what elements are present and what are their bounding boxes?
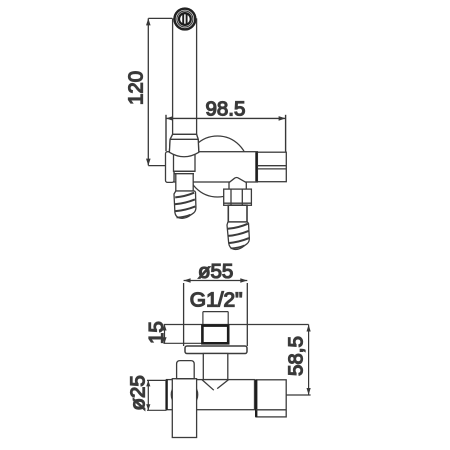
handle lower column wide part bbox=[174, 153, 196, 172]
hex facet line right bbox=[241, 189, 243, 205]
wall line bbox=[164, 324, 309, 326]
svg-text:G1/2": G1/2" bbox=[190, 289, 243, 312]
valve seat circle bbox=[171, 381, 197, 407]
handle grip transition bbox=[169, 134, 198, 156]
svg-text:15: 15 bbox=[145, 321, 168, 344]
dimension 58,5 bbox=[287, 325, 311, 396]
hex facet line left bbox=[230, 189, 232, 205]
V chamfer right bbox=[217, 380, 228, 389]
grip flare line overdraw bbox=[170, 138, 198, 140]
wall bracket bbox=[166, 152, 175, 183]
left hose spiral connector bbox=[174, 191, 196, 218]
dimension dia55 line bbox=[184, 281, 248, 347]
right outlet cap bbox=[256, 380, 286, 417]
dimension dia55 arrows bbox=[184, 278, 248, 283]
thick thread square bbox=[202, 326, 228, 344]
hex nut bbox=[224, 189, 252, 205]
hand shower handle column bbox=[173, 19, 197, 134]
grip overdraw bbox=[169, 134, 198, 156]
cap crossing line bbox=[256, 409, 286, 411]
ring line 2 bbox=[175, 173, 195, 175]
body left end thick bbox=[165, 380, 167, 410]
dimension 98.5 line bbox=[166, 115, 286, 152]
bottom dome over nut bbox=[229, 178, 246, 190]
shower head top circle assembly bbox=[175, 9, 196, 30]
horizontal body bbox=[167, 380, 255, 410]
outlet block right bbox=[257, 152, 286, 182]
svg-text:98.5: 98.5 bbox=[206, 98, 246, 121]
outlet inner line 2 bbox=[257, 168, 286, 170]
svg-text:120: 120 bbox=[125, 71, 148, 105]
G1/2 thread stub above wall bbox=[203, 312, 228, 326]
dimension 15 line bbox=[164, 325, 203, 344]
flange rosette bbox=[185, 346, 247, 354]
handle narrow column bbox=[176, 174, 193, 191]
cap left thick edge bbox=[255, 380, 257, 417]
dimension 15 arrows bbox=[162, 325, 166, 344]
V chamfer left bbox=[202, 380, 214, 391]
dimension dia25 bbox=[147, 380, 167, 410]
nut stem bbox=[228, 205, 247, 222]
outlet inner line 1 bbox=[257, 165, 286, 167]
ring line 1 bbox=[174, 170, 196, 172]
dimension 120 arrows bbox=[146, 18, 151, 165]
lower hose spiral connector bbox=[227, 222, 249, 249]
valve body circle (big) bbox=[187, 136, 248, 197]
control handle bbox=[177, 361, 195, 379]
svg-text:ø55: ø55 bbox=[198, 260, 233, 283]
vertical tube below flange bbox=[203, 354, 228, 380]
down outlet bbox=[172, 379, 196, 438]
body-outlet separation thick line bbox=[255, 152, 257, 181]
grip flare line bbox=[170, 138, 198, 140]
hex chamfer line bbox=[224, 202, 252, 204]
dimension dia25 arrows bbox=[146, 380, 150, 410]
body band (horizontal valve body) bbox=[174, 152, 257, 182]
dimension 58,5 arrows bbox=[307, 325, 311, 396]
dimension 120 line bbox=[148, 18, 172, 165]
svg-text:ø25: ø25 bbox=[127, 375, 150, 410]
svg-text:58,5: 58,5 bbox=[285, 336, 308, 376]
dimension 98.5 arrows bbox=[166, 116, 286, 121]
